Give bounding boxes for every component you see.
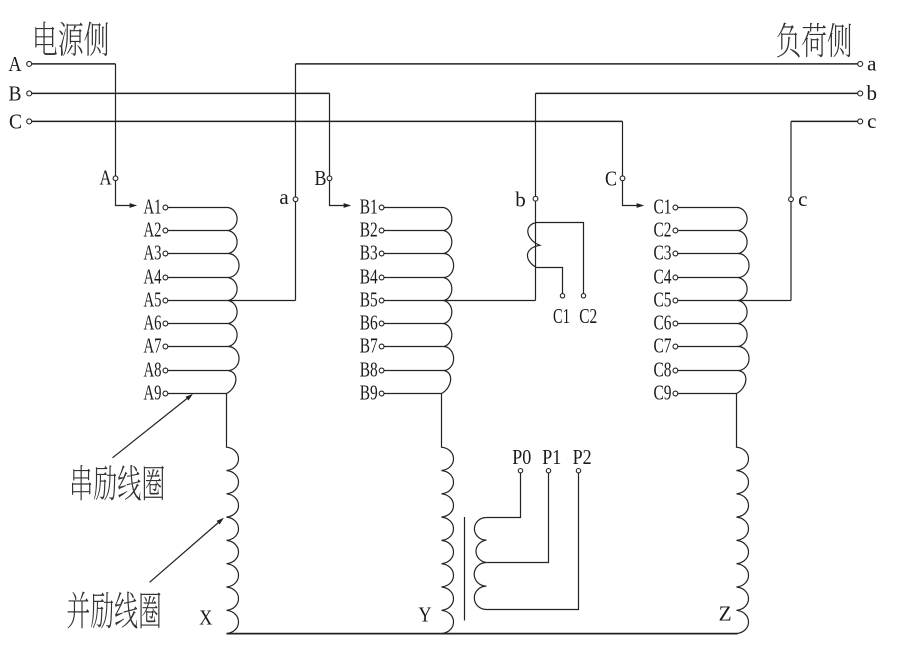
wire CT top lead to C2: [537, 223, 584, 294]
wire rail c (output): [791, 120, 858, 122]
svg-text:C9: C9: [654, 381, 672, 405]
label 电源侧 (source side): [35, 21, 108, 56]
svg-text:b: b: [515, 187, 526, 211]
svg-text:Y: Y: [419, 603, 432, 627]
svg-text:B2: B2: [360, 218, 378, 242]
svg-text:A1: A1: [144, 195, 162, 219]
winding A: coil scallops: [227, 208, 240, 394]
svg-text:B8: B8: [360, 358, 378, 382]
svg-text:C5: C5: [654, 288, 672, 312]
wire b vertical: [535, 93, 537, 196]
shunt coil Y (phase B shunt): [442, 394, 454, 634]
wire C to C1 with arrow: [623, 181, 637, 206]
svg-text:B6: B6: [360, 311, 378, 335]
wire a vertical: [295, 64, 297, 197]
annotation arrow to series coil (A9): [113, 398, 189, 458]
svg-text:A: A: [100, 166, 113, 190]
svg-text:P2: P2: [573, 445, 592, 469]
svg-text:P1: P1: [542, 445, 561, 469]
node C circle: [620, 176, 625, 181]
svg-text:A4: A4: [144, 265, 162, 289]
svg-text:B5: B5: [360, 288, 378, 312]
terminal b (right): [858, 91, 863, 96]
svg-text:A2: A2: [144, 218, 162, 242]
terminal C (left): [27, 119, 32, 124]
winding C: coil scallops: [737, 208, 750, 394]
svg-text:B9: B9: [360, 381, 378, 405]
svg-text:C: C: [9, 110, 22, 134]
wire rail A: [32, 63, 116, 65]
wire bottom neutral rail: [227, 633, 738, 635]
node a circle: [293, 197, 298, 202]
shunt coil Z (phase C shunt): [737, 394, 749, 634]
svg-text:c: c: [798, 187, 807, 211]
wire rail B: [32, 92, 330, 94]
svg-text:C4: C4: [654, 265, 672, 289]
P transformer winding: [474, 518, 486, 610]
node A circle: [113, 176, 118, 181]
wire rail C: [32, 120, 623, 122]
node b circle: [533, 196, 538, 201]
winding B: tap lines: [384, 207, 444, 209]
wire CT bottom lead to C1: [537, 268, 563, 294]
wire P1 lead: [486, 473, 548, 563]
svg-text:X: X: [199, 606, 212, 630]
label 串励线圈 (series coil): [72, 465, 164, 501]
svg-text:A5: A5: [144, 288, 162, 312]
svg-text:B1: B1: [360, 195, 378, 219]
svg-text:A7: A7: [144, 334, 162, 358]
svg-text:B: B: [315, 166, 327, 190]
shunt coil X (phase A shunt): [227, 394, 239, 634]
wire c vertical: [790, 121, 792, 196]
label 负荷侧 (load side): [777, 22, 851, 57]
svg-text:A9: A9: [144, 381, 162, 405]
wire B5 tap extension: [444, 300, 536, 302]
winding B: tap circles: [379, 205, 384, 210]
svg-text:c: c: [867, 109, 876, 133]
wire C drop: [622, 121, 624, 175]
terminal C1 circle: [560, 294, 564, 298]
annotation arrow to shunt coil X: [150, 522, 220, 583]
svg-text:b: b: [867, 81, 878, 105]
svg-text:C2: C2: [654, 218, 672, 242]
winding C: tap lines: [678, 207, 738, 209]
svg-text:B4: B4: [360, 265, 378, 289]
svg-text:A3: A3: [144, 241, 162, 265]
wire B to B1 with arrow: [330, 181, 344, 206]
wire A5 tap extension: [228, 300, 296, 302]
P transformer core bar: [464, 517, 466, 621]
svg-text:C7: C7: [654, 334, 672, 358]
wire B drop: [329, 93, 331, 175]
svg-text:A6: A6: [144, 311, 162, 335]
svg-text:C6: C6: [654, 311, 672, 335]
wire A drop: [115, 64, 117, 176]
label 并励线圈 (shunt coil): [67, 592, 160, 629]
wire C5 tap extension: [738, 300, 791, 302]
svg-text:B3: B3: [360, 241, 378, 265]
terminal a (right): [858, 61, 863, 66]
wire P0 lead: [486, 473, 520, 518]
svg-text:a: a: [867, 51, 877, 75]
svg-text:C3: C3: [654, 241, 672, 265]
svg-text:C1: C1: [654, 195, 672, 219]
svg-text:C1: C1: [553, 304, 570, 328]
svg-text:a: a: [279, 185, 289, 209]
wire A to A1 with arrow: [116, 181, 130, 206]
wire rail b (output): [536, 92, 858, 94]
terminal P1 circle: [546, 469, 550, 473]
wire rail a (output): [296, 63, 858, 65]
node B circle: [327, 176, 332, 181]
svg-text:Z: Z: [719, 601, 732, 625]
terminal A (left): [27, 61, 32, 66]
terminal P0 circle: [518, 469, 522, 473]
wire P2 lead: [486, 473, 578, 610]
winding B: coil scallops: [442, 208, 454, 394]
svg-text:P0: P0: [512, 445, 531, 469]
current transformer winding (C1/C2) on b wire: [527, 223, 539, 268]
svg-text:B: B: [9, 82, 22, 106]
svg-text:B7: B7: [360, 334, 378, 358]
winding C: tap circles: [673, 205, 678, 210]
svg-text:A8: A8: [144, 358, 162, 382]
node c circle: [789, 197, 794, 202]
svg-text:C: C: [605, 166, 617, 190]
winding A: tap lines: [168, 207, 228, 209]
terminal C2 circle: [581, 294, 585, 298]
svg-text:C8: C8: [654, 358, 672, 382]
terminal P2 circle: [576, 469, 580, 473]
terminal c (right): [858, 119, 863, 124]
winding A: tap circles: [163, 205, 168, 210]
svg-text:A: A: [9, 52, 23, 76]
svg-text:C2: C2: [579, 304, 597, 328]
terminal B (left): [27, 91, 32, 96]
